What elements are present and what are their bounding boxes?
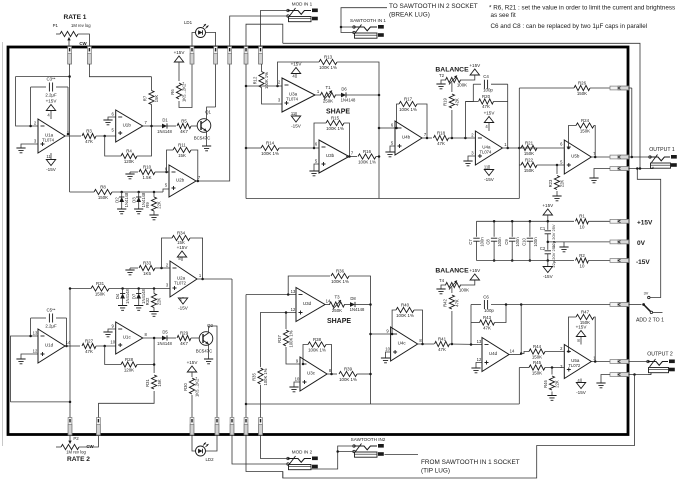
svg-text:R4: R4 (126, 148, 132, 153)
svg-text:TL072: TL072 (568, 363, 581, 368)
svg-text:R18: R18 (437, 130, 446, 135)
wire R47 to out (594, 317, 595, 362)
wire R46 bottom (551, 392, 553, 396)
svg-text:10: 10 (580, 225, 585, 230)
svg-text:47K: 47K (85, 139, 93, 144)
wire connector to LD1 (192, 33, 196, 47)
wire C9 bottom (511, 241, 513, 260)
svg-text:TL072: TL072 (174, 281, 187, 286)
svg-text:R28: R28 (125, 357, 134, 362)
wire T4 to +15V (460, 280, 475, 285)
svg-text:100K 1%: 100K 1% (319, 65, 337, 70)
connector output1 signal (610, 155, 629, 159)
svg-text:+15V: +15V (187, 360, 199, 365)
svg-text:R31: R31 (96, 281, 105, 286)
svg-text:U4b: U4b (402, 135, 411, 140)
ground R32 (149, 312, 158, 317)
wire U5a V- (580, 379, 582, 383)
svg-text:BALANCE: BALANCE (435, 268, 469, 275)
svg-text:22µ 20V 25V: 22µ 20V 25V (551, 224, 556, 248)
wire R33 left (130, 267, 138, 269)
ground Q2 emitter (204, 359, 213, 364)
svg-text:R33: R33 (143, 260, 152, 265)
wire R15 to pin6 (314, 123, 326, 148)
svg-text:22K: 22K (555, 380, 560, 388)
wire U3b pin5 to ground (314, 164, 319, 171)
svg-text:100n: 100n (533, 237, 538, 247)
capacitor C4 (483, 74, 493, 93)
wire C7 top (476, 221, 478, 237)
svg-text:R43: R43 (483, 315, 492, 320)
svg-text:R9: R9 (145, 202, 150, 208)
wire Q2 emitter to ground (208, 344, 210, 359)
ground U4d pin12 (471, 368, 480, 373)
svg-text:+15V: +15V (637, 220, 653, 227)
wire switch to output1 (637, 169, 660, 298)
svg-text:+15V: +15V (174, 50, 186, 55)
svg-text:D6: D6 (341, 87, 347, 92)
wire C3 left (31, 86, 46, 88)
svg-text:1N4148: 1N4148 (157, 341, 172, 346)
sheet edge line (2, 42, 4, 446)
wire C4 right (491, 83, 508, 85)
wire R38 to out (326, 345, 332, 375)
svg-text:15K: 15K (157, 379, 162, 387)
wire R10 left (130, 171, 138, 173)
switch ADD 2 TO 1 (642, 292, 652, 314)
svg-text:U1d: U1d (45, 343, 54, 348)
diode D5 (157, 330, 172, 347)
wire R6 to connector (179, 64, 192, 108)
ground U4b pin5 (385, 152, 394, 157)
wire +15V stub (547, 215, 549, 221)
svg-text:R26: R26 (578, 80, 587, 85)
wire R27 to U1c pin10 (96, 345, 116, 347)
svg-text:10: 10 (385, 347, 390, 352)
wire R21 row (521, 147, 564, 149)
resistor R23 (548, 176, 565, 190)
connector LED2 cathode (215, 418, 219, 436)
svg-text:-15V: -15V (636, 259, 650, 266)
power -15V (484, 170, 495, 183)
wire R40 to out (414, 310, 423, 344)
svg-text:D7: D7 (131, 293, 136, 299)
wire D2 to ground (121, 202, 123, 209)
power -15V (543, 267, 554, 280)
svg-text:15K: 15K (178, 153, 186, 158)
svg-text:MOD IN 2: MOD IN 2 (292, 450, 313, 455)
wire pin5 to R4 (105, 136, 121, 156)
wire C5 to pin13 (30, 318, 32, 336)
resistor R42 (443, 295, 460, 309)
svg-text:R7: R7 (142, 95, 147, 101)
wire sawtooth switch (341, 27, 354, 33)
wire 0V to connector (564, 241, 610, 243)
power +15V (174, 50, 186, 62)
wire C9 top (511, 221, 513, 237)
ground Q1 emitter (202, 146, 211, 151)
wire C10 top (529, 221, 531, 237)
connector add-2-to-1 (610, 303, 629, 307)
wire C5 to output (66, 318, 68, 346)
svg-text:100K 1%: 100K 1% (339, 377, 357, 382)
svg-text:1.5K: 1.5K (142, 175, 151, 180)
resistor R24 (576, 118, 594, 134)
svg-text:R15: R15 (331, 115, 340, 120)
ground D3 (134, 209, 143, 214)
wire plug to R12 (261, 64, 263, 72)
wire U3b out (346, 156, 357, 158)
resistor R32 (145, 294, 162, 308)
svg-text:2.2µF: 2.2µF (45, 324, 57, 329)
wire U1a pin3 to ground (21, 144, 38, 148)
svg-text:D3: D3 (131, 197, 136, 203)
LED LD1 (184, 20, 209, 38)
svg-text:TL074: TL074 (479, 150, 492, 155)
svg-text:D2: D2 (114, 197, 119, 203)
svg-text:R41: R41 (438, 336, 447, 341)
wire pot P1 cw to connector (78, 34, 89, 46)
svg-text:100K: 100K (457, 83, 467, 88)
svg-text:100K 1%: 100K 1% (264, 72, 269, 89)
op-amp U3c (295, 357, 332, 391)
svg-text:R35: R35 (251, 372, 256, 380)
capacitor C5** (45, 308, 57, 329)
wire U4d out (509, 354, 521, 356)
wire U3a V+ (295, 74, 297, 79)
wire loop to output (520, 305, 522, 354)
wire R37 top (285, 313, 287, 330)
wire C6 left rail (470, 305, 472, 323)
op-amp U5b (560, 140, 596, 174)
wire C8 bottom (493, 241, 495, 260)
svg-text:TO SAWTOOTH IN 2 SOCKET: TO SAWTOOTH IN 2 SOCKET (389, 3, 478, 10)
wire pin13 to R36 (288, 276, 330, 295)
svg-text:R8: R8 (100, 184, 106, 189)
power -15V (178, 298, 189, 311)
wire +15V to R6 (178, 62, 180, 81)
resistor R21 (521, 140, 537, 156)
wire C1 top (547, 221, 549, 230)
svg-text:R38: R38 (313, 337, 322, 342)
jack MOD IN 1 (287, 2, 318, 22)
wire to U1d pin13 (11, 336, 39, 402)
wire R42 to pin13 node (451, 311, 453, 344)
wire R20 left (465, 101, 478, 103)
wire U5a out to connector (591, 361, 610, 363)
svg-text:100p: 100p (483, 88, 493, 93)
wire to jack tip (629, 156, 650, 158)
svg-text:100K 1%: 100K 1% (289, 330, 294, 347)
wire R9 bottom (153, 211, 155, 215)
wire node A vertical (integrator input) (69, 64, 71, 192)
ground D2 (117, 209, 126, 214)
wire T2 wiper to R19 (451, 83, 453, 93)
wire jack tip to connector (261, 11, 289, 47)
svg-text:11: 11 (484, 165, 489, 170)
svg-text:-15V: -15V (178, 306, 189, 311)
wire R26 plug out (629, 87, 632, 89)
svg-text:-15V: -15V (484, 177, 495, 182)
power +15V (469, 268, 481, 280)
svg-text:R30: R30 (183, 382, 188, 390)
resistor R33 (139, 260, 155, 276)
wire pin2 to R13 (278, 62, 320, 86)
wire V2 vertical (245, 295, 247, 405)
svg-text:R6: R6 (170, 89, 175, 95)
jack SAWTOOTH IN2 (351, 437, 386, 457)
wire to D3 (138, 192, 140, 197)
resistor R2 (576, 253, 589, 269)
wire switch lower throw (653, 311, 663, 313)
connector output1 ground (610, 167, 629, 171)
svg-text:+15V: +15V (542, 203, 554, 208)
resistor R9 (145, 197, 162, 211)
resistor R11 (173, 142, 191, 158)
svg-text:0V: 0V (637, 240, 646, 247)
svg-text:R3: R3 (86, 128, 92, 133)
capacitor C3** (45, 77, 57, 98)
ground R46 (547, 396, 556, 401)
svg-text:R12: R12 (252, 76, 257, 84)
resistor R14 (261, 140, 279, 156)
svg-text:R16: R16 (363, 149, 372, 154)
wire R16 to bus (376, 156, 379, 158)
resistor R28 (121, 357, 137, 373)
wire C7 bottom (476, 241, 478, 260)
svg-text:C5**: C5** (46, 308, 55, 313)
capacitor C7 (468, 237, 484, 247)
wire to add switch connector (521, 304, 610, 306)
power +15V (542, 203, 554, 215)
svg-text:+15V: +15V (469, 268, 481, 273)
svg-text:100K 1%: 100K 1% (331, 279, 349, 284)
jack MOD IN 2 (287, 450, 318, 470)
svg-text:15K: 15K (154, 95, 159, 103)
resistor R45 (529, 360, 545, 376)
svg-text:11: 11 (46, 154, 51, 159)
wire to D7 (138, 289, 140, 294)
trimmer T4 (439, 278, 469, 293)
op-amp U2a (166, 261, 202, 297)
wire C3 to pin2 (30, 87, 32, 126)
wire U1c pin9 to ground (108, 329, 116, 332)
resistor R35 (251, 368, 268, 386)
wire U1a V- (50, 153, 52, 160)
wire R23 top (556, 165, 558, 174)
svg-text:1N4148: 1N4148 (124, 192, 129, 207)
svg-text:OUTPUT 1: OUTPUT 1 (649, 147, 675, 153)
svg-text:22K: 22K (560, 180, 565, 188)
wire R7 bottom (151, 105, 153, 129)
resistor R34 (172, 230, 190, 245)
svg-text:+15V: +15V (484, 111, 496, 116)
wire jog to U2b pin5 (163, 189, 169, 192)
resistor R30 (183, 377, 200, 397)
ground D4 (118, 306, 127, 311)
svg-text:100n: 100n (497, 237, 502, 247)
power +15V (187, 360, 199, 372)
svg-text:T1: T1 (325, 85, 331, 90)
ground T2 (436, 84, 445, 89)
wire loop left rail 2 (470, 323, 472, 345)
wire R22 left (519, 164, 521, 166)
svg-text:C8: C8 (486, 239, 491, 245)
wire R41 to U4d pin13 (450, 343, 483, 346)
svg-text:1M rev log: 1M rev log (71, 23, 91, 28)
wire bus2 to U4c pin9 (371, 333, 391, 335)
wire R17 to out (417, 104, 427, 138)
svg-text:U1c: U1c (123, 335, 132, 340)
wire LD1 to connector (206, 33, 216, 47)
wire U2a out to connector (197, 278, 232, 280)
svg-text:T3: T3 (334, 295, 340, 300)
svg-text:SHAPE: SHAPE (327, 318, 351, 325)
svg-text:R27: R27 (85, 338, 94, 343)
svg-text:11: 11 (291, 111, 296, 116)
wire R5 to Q1 base (191, 125, 197, 127)
wire D3 to ground (138, 202, 140, 209)
svg-text:D4: D4 (115, 293, 120, 299)
ground output1 (589, 178, 598, 183)
svg-text:OUTPUT 2: OUTPUT 2 (647, 352, 673, 358)
wire C6 left (471, 304, 481, 306)
diode D4 (115, 288, 130, 303)
op-amp U5a (560, 345, 596, 379)
connector -15V (610, 259, 629, 263)
svg-text:(BREAK LUG): (BREAK LUG) (389, 12, 430, 19)
wire to jack2 sleeve (629, 374, 648, 376)
svg-text:250K: 250K (323, 99, 333, 104)
svg-text:1K5...2K2*: 1K5...2K2* (195, 377, 200, 397)
svg-text:U2b: U2b (176, 178, 185, 183)
wire loop right rail (507, 84, 509, 148)
wire U4c out (418, 343, 434, 345)
connector 0V (610, 240, 629, 244)
svg-text:C6 and C8 : can be replaced by: C6 and C8 : can be replaced by two 1µF c… (491, 23, 648, 30)
wire V1 vertical (245, 86, 247, 199)
wire R33 to U2a pin2 (155, 267, 170, 269)
connector LED2 anode (190, 418, 194, 436)
connector mod1 tip (259, 47, 263, 65)
svg-text:1N4148: 1N4148 (157, 129, 172, 134)
wire R12 to U3a pin3 (262, 88, 283, 105)
svg-text:14: 14 (510, 349, 515, 354)
svg-text:R40: R40 (401, 302, 410, 307)
wire R44 to U5a pin2 (545, 351, 564, 353)
wire R26 column (518, 88, 520, 165)
wire U2b out to connector (196, 64, 230, 181)
svg-text:2.2µF: 2.2µF (45, 93, 57, 98)
power +15V (484, 111, 496, 123)
wire R11 to output (191, 150, 198, 181)
svg-text:R45: R45 (533, 360, 542, 365)
wire C2 bottom (547, 254, 549, 261)
svg-text:4K7: 4K7 (180, 129, 188, 134)
svg-text:P2: P2 (73, 436, 79, 441)
svg-text:R11: R11 (178, 142, 186, 147)
wire R45 right (545, 367, 564, 369)
svg-text:100K 1%: 100K 1% (308, 348, 326, 353)
svg-text:R14: R14 (266, 140, 275, 145)
wire T2 to +15V (460, 75, 475, 80)
op-amp U4c (385, 327, 422, 361)
resistor R8 (94, 184, 112, 200)
wire R23 bottom (556, 191, 558, 196)
wire plug up (245, 404, 247, 418)
svg-text:R44: R44 (533, 344, 542, 349)
svg-text:RATE 1: RATE 1 (64, 14, 87, 21)
svg-text:10: 10 (295, 377, 300, 382)
svg-text:10: 10 (580, 264, 585, 269)
resistor R5 (177, 118, 191, 134)
wire U2a V+ (181, 257, 183, 261)
wire R19 to pin2 node (451, 110, 453, 138)
connector output2 ground (610, 373, 629, 377)
svg-text:U4d: U4d (489, 351, 498, 356)
svg-text:C3**: C3** (46, 77, 55, 82)
wire R28 to output (137, 338, 154, 365)
svg-text:R23: R23 (548, 179, 553, 187)
wire R47 to pin2 (569, 317, 577, 352)
wire to plug (97, 403, 99, 417)
resistor R31 (91, 281, 109, 297)
svg-text:12: 12 (291, 307, 296, 312)
wire D1 to R5 (167, 125, 176, 127)
svg-text:13: 13 (477, 339, 482, 344)
svg-text:U3c: U3c (307, 371, 316, 376)
svg-text:100K 1%: 100K 1% (261, 151, 279, 156)
svg-text:as see fit: as see fit (491, 12, 516, 19)
wire sawtooth tip to break-lug label (341, 8, 387, 27)
wire R8 right (112, 191, 163, 193)
svg-text:150K: 150K (95, 292, 105, 297)
wire U3c out (327, 373, 337, 375)
jack SAWTOOTH IN 1 (350, 18, 386, 38)
svg-text:3V: 3V (644, 292, 649, 296)
ground U1a pin3 (16, 148, 25, 153)
capacitor C10 (522, 237, 538, 247)
svg-text:13: 13 (291, 289, 296, 294)
wire plug to U3a pin2 (246, 64, 282, 86)
svg-text:47K: 47K (483, 326, 491, 331)
svg-text:47K: 47K (85, 349, 93, 354)
wire pin10 to R28 (105, 346, 121, 365)
wire sleeve loop bottom (246, 435, 283, 478)
svg-text:T4: T4 (439, 278, 445, 283)
LED LD2 (196, 443, 215, 463)
svg-text:TL074: TL074 (286, 97, 299, 102)
svg-text:R22: R22 (525, 157, 534, 162)
svg-text:47K: 47K (482, 104, 490, 109)
svg-text:R13: R13 (324, 54, 333, 59)
wire T2 to ground (441, 80, 446, 84)
wire stub (245, 85, 247, 87)
wire U3a out (315, 94, 321, 96)
wire C8 top (493, 221, 495, 237)
wire R7 top (151, 77, 153, 91)
svg-text:22K: 22K (157, 201, 162, 209)
wire sawtooth2 switch (338, 451, 354, 453)
wire R34 to output (190, 238, 203, 279)
connector LED anode (190, 47, 194, 65)
wire LD2 to connector (206, 435, 218, 451)
wire to -15V symbol (547, 261, 549, 267)
wire (56, 446, 61, 448)
wire C4 to R20 row (465, 84, 473, 101)
svg-text:C2: C2 (540, 246, 546, 251)
svg-text:1K5: 1K5 (143, 271, 151, 276)
